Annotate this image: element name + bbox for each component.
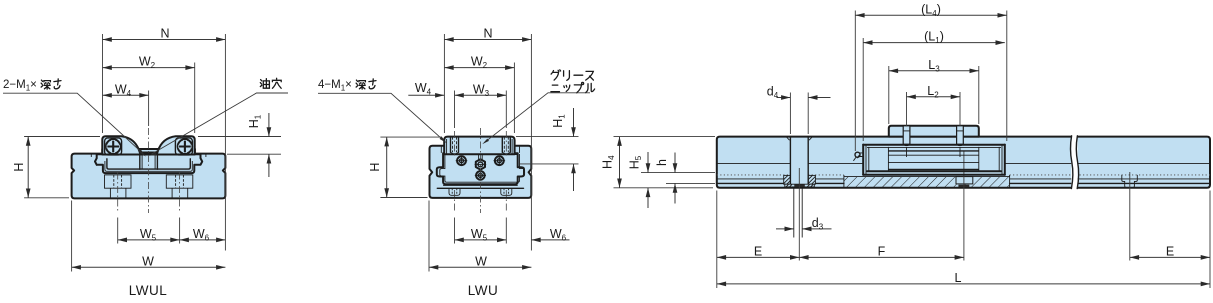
svg-text:2−M1×: 2−M1×: [3, 79, 37, 93]
slide unit top block: [889, 126, 979, 137]
right mounting hole (counterbore, below slide): [166, 175, 193, 198]
slide unit body (side, between end plates): [863, 145, 1005, 175]
dimension W2: [103, 55, 195, 133]
dimension W5: [118, 227, 180, 243]
svg-text:LWU: LWU: [468, 283, 499, 298]
dimension W: [72, 201, 226, 272]
left rail mounting foot: [449, 188, 460, 195]
slide body inner line: [440, 154, 525, 182]
mounting hole 3 (right section): [1122, 172, 1138, 261]
right fixing screw slot: [957, 126, 964, 146]
svg-text:W: W: [475, 254, 487, 268]
dimension N: [444, 27, 531, 251]
dimension d4 (outside arrows): [767, 85, 831, 134]
rail inner wall shoulder ticks: [90, 154, 92, 157]
svg-text:h: h: [655, 159, 669, 166]
grease nipple (hex head): [475, 159, 487, 169]
rail floor step line (thin): [717, 178, 1210, 180]
dimension d3 (outside arrows): [776, 216, 832, 232]
dimension L2: [907, 84, 961, 127]
svg-text:W: W: [142, 254, 154, 268]
main center line: [479, 128, 481, 213]
right hole center line: [179, 173, 181, 213]
dimension L: [717, 271, 1210, 285]
right end plate: [999, 145, 1005, 175]
dimension (L4): [855, 2, 1007, 151]
mounting hole 2 (under slide unit): [956, 151, 973, 261]
right rail mounting foot: [501, 188, 512, 195]
dimension W5: [455, 218, 507, 244]
svg-text:E: E: [1166, 244, 1174, 258]
right screw M1 (phillips head): [178, 139, 192, 153]
dimension L3: [889, 58, 979, 124]
svg-text:(L1): (L1): [924, 30, 944, 46]
left end plate: [863, 145, 869, 175]
leader grease nipple label: [482, 70, 594, 144]
inner cassette block: [888, 147, 978, 171]
break line (rail shown shortened): [1070, 135, 1078, 189]
rail floor bottom line (medium): [717, 182, 1210, 184]
mounting hole 1 (counterbored, sectioned): [784, 137, 816, 261]
track rail (U-channel) body: [430, 146, 532, 198]
dimension H (left): [12, 137, 100, 198]
slide unit lower body: [95, 149, 202, 173]
rail floor lines: [437, 185, 523, 188]
slide unit bottom inner line (thin): [105, 161, 192, 171]
dimension H (left): [368, 137, 442, 197]
dimension W3: [455, 82, 507, 128]
slide unit top block: [444, 137, 514, 155]
left oil hole (counterbored, front view): [456, 156, 468, 166]
grease nipple (side): [853, 152, 863, 161]
rail hidden edge (dotted phantom line): [717, 174, 1210, 176]
svg-text:E: E: [754, 244, 762, 258]
dimension F: [799, 244, 964, 258]
svg-text:H: H: [368, 163, 382, 172]
center tongue: [140, 152, 158, 169]
left hole center line: [117, 173, 119, 213]
grease nipple neck: [479, 154, 483, 160]
right foot center line: [505, 190, 507, 213]
main center line: [148, 128, 150, 213]
slide unit bottom inner line (thick): [107, 159, 190, 169]
dimension E (right): [1130, 191, 1210, 289]
slide unit body outline: [437, 153, 524, 184]
sectioned floor hatch band: [844, 175, 1010, 188]
dimension H1 (right): [198, 113, 281, 177]
left mounting hole (counterbore, below slide): [105, 175, 132, 198]
left foot center line: [454, 190, 456, 213]
track rail (side view) body: [717, 137, 1210, 188]
track rail (U-channel) body: [72, 154, 226, 199]
svg-text:(L4): (L4): [921, 2, 941, 18]
right M1 tapped hole (x2 front+back): [502, 131, 510, 158]
rail wall inner edges: [440, 146, 442, 153]
slide unit top plate: [102, 136, 194, 154]
dimension W4 (outside arrow): [408, 81, 444, 97]
leader 4-M1 x depth: [318, 79, 447, 143]
svg-text:F: F: [878, 244, 886, 258]
svg-text:4−M1×: 4−M1×: [318, 79, 352, 93]
dimension E (left): [717, 191, 800, 289]
dimension W6 (outside arrow): [531, 227, 569, 243]
left screw boss: [105, 138, 122, 155]
dimension W: [429, 201, 531, 272]
svg-text:L: L: [955, 271, 962, 285]
dimension W4: [103, 82, 149, 126]
left screw M1 (phillips head): [106, 139, 120, 153]
right screw boss: [175, 138, 192, 155]
left fixing screw slot: [903, 126, 910, 146]
dimension W6: [180, 227, 226, 243]
lower center oil hole: [475, 171, 486, 181]
top block inner edge lines: [446, 139, 448, 154]
leader 2-M1 x depth: [3, 79, 146, 157]
leader oil hole (abura-ana): [149, 78, 288, 155]
dimension H1 (grease nipple height, right): [516, 108, 579, 191]
dimension W2: [444, 55, 514, 133]
left M1 tapped hole (x2 front+back): [451, 131, 459, 158]
shoulder line: [443, 153, 518, 155]
dimension h (outside arrows): [655, 153, 715, 204]
right oil hole (counterbored, front view): [494, 156, 506, 166]
svg-text:H: H: [12, 163, 26, 172]
svg-text:N: N: [160, 27, 169, 41]
dimension N: [103, 27, 226, 251]
dimension H5 (outside arrows): [628, 152, 716, 208]
dimension H4 (left): [601, 137, 716, 188]
svg-text:N: N: [483, 27, 492, 41]
dimension (L1): [863, 30, 1005, 141]
svg-text:LWUL: LWUL: [129, 283, 168, 298]
rail wall top line (thin, full): [717, 162, 1210, 164]
